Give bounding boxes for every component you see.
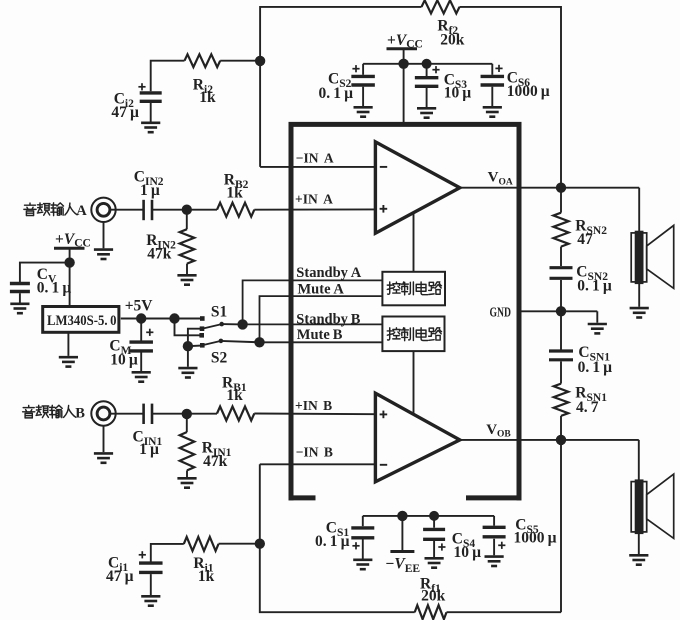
svg-text:−IN B: −IN B	[296, 445, 333, 460]
svg-text:47 µ: 47 µ	[106, 568, 134, 585]
svg-text:S2: S2	[211, 349, 228, 366]
svg-text:0. 1 µ: 0. 1 µ	[577, 277, 612, 294]
svg-text:Standby B: Standby B	[296, 311, 360, 327]
svg-text:4. 7: 4. 7	[576, 399, 599, 416]
svg-text:47k: 47k	[147, 246, 172, 263]
svg-text:0. 1 µ: 0. 1 µ	[37, 280, 72, 297]
svg-text:GND: GND	[490, 304, 512, 319]
svg-text:1 µ: 1 µ	[139, 441, 159, 458]
svg-text:A: A	[76, 203, 87, 219]
svg-text:B: B	[75, 406, 85, 422]
svg-text:−IN A: −IN A	[296, 150, 334, 165]
svg-text:Mute B: Mute B	[297, 327, 343, 343]
svg-text:1k: 1k	[226, 185, 243, 202]
svg-text:10 µ: 10 µ	[110, 351, 138, 368]
svg-text:+IN A: +IN A	[295, 192, 333, 207]
svg-text:20k: 20k	[421, 588, 446, 605]
svg-text:+IN B: +IN B	[295, 398, 332, 413]
svg-text:0. 1 µ: 0. 1 µ	[319, 85, 354, 102]
svg-text:Standby A: Standby A	[296, 265, 361, 281]
svg-text:1 µ: 1 µ	[140, 182, 160, 199]
svg-text:1k: 1k	[198, 568, 215, 585]
svg-text:+5V: +5V	[125, 298, 154, 315]
svg-text:0. 1 µ: 0. 1 µ	[315, 533, 350, 550]
svg-text:LM340S-5. 0: LM340S-5. 0	[47, 313, 117, 329]
svg-text:S1: S1	[211, 304, 227, 321]
svg-text:10 µ: 10 µ	[444, 85, 472, 102]
svg-text:47 µ: 47 µ	[111, 104, 139, 121]
svg-text:1000 µ: 1000 µ	[514, 530, 557, 547]
svg-text:10 µ: 10 µ	[454, 544, 482, 561]
svg-text:Mute A: Mute A	[298, 282, 345, 298]
svg-text:47: 47	[577, 231, 593, 248]
svg-text:0. 1 µ: 0. 1 µ	[578, 359, 613, 376]
svg-text:1k: 1k	[226, 387, 243, 404]
svg-text:20k: 20k	[440, 32, 465, 49]
svg-text:47k: 47k	[203, 453, 228, 470]
svg-text:1000 µ: 1000 µ	[507, 83, 550, 100]
svg-text:1k: 1k	[199, 89, 216, 106]
